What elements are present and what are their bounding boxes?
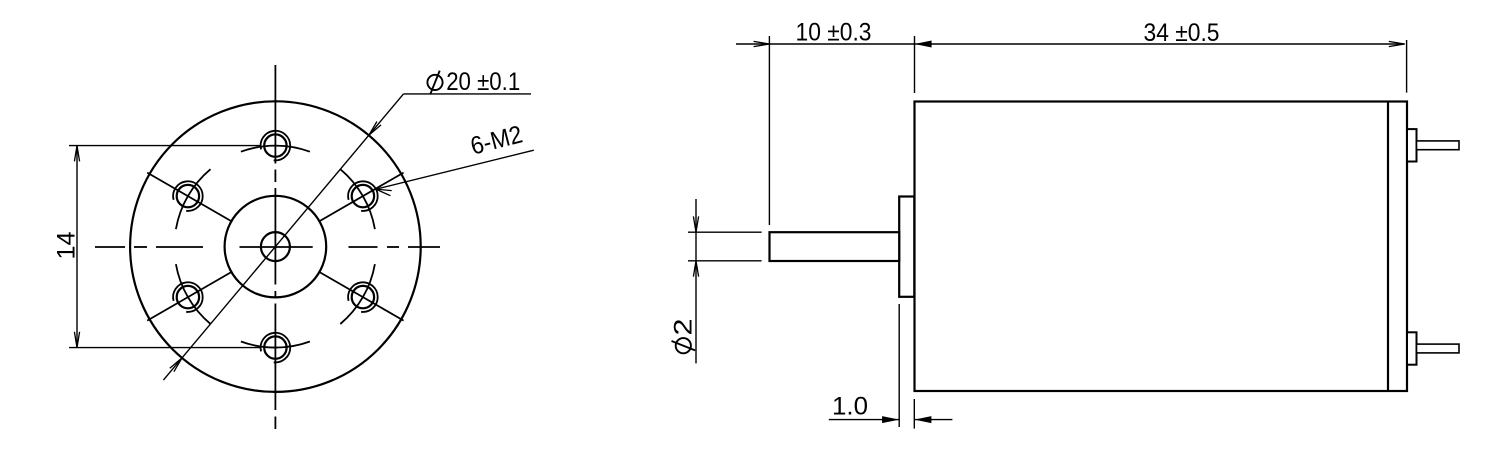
bolt-circle arc at 30° hole (340, 169, 375, 229)
dim text 14 (52, 231, 80, 259)
ext line shaft bottom (688, 260, 762, 262)
outer flange circle ∅20 (130, 101, 421, 392)
extension line body front (914, 36, 916, 93)
mounting hole M2 at 270° (261, 333, 291, 363)
dim ∅20 lower arrow (170, 358, 182, 372)
leader line 6-M2 (376, 150, 534, 189)
dim 10 left arrow (754, 41, 770, 46)
dim ∅20 diagonal dimension line (163, 94, 403, 380)
top dimension line (736, 43, 1405, 45)
mounting hole M2 at 330° (348, 282, 378, 312)
mounting hole M2 at 90° (261, 131, 291, 161)
dim 14 bottom arrow (74, 332, 79, 348)
mounting hole M2 at 150° (173, 181, 203, 211)
dim 10/34 shared arrow (915, 41, 932, 48)
dim 14 top extension line (69, 145, 260, 147)
motor shaft (770, 232, 900, 261)
svg-text:10 ±0.3: 10 ±0.3 (796, 18, 872, 46)
terminal at y=145.3 (1407, 129, 1459, 161)
dim text ∅2 (670, 319, 698, 354)
end cap line (1387, 102, 1389, 392)
dim ∅2 top arrow (693, 216, 698, 232)
horizontal centerline (95, 246, 440, 248)
dim ∅2 bottom arrow (693, 261, 698, 277)
radial spoke 30° (319, 173, 404, 222)
terminal at y=348.5 (1407, 332, 1459, 364)
motor body outline (915, 102, 1408, 392)
bolt-circle arc at 270° hole (241, 342, 310, 348)
label text 6-M2 (468, 120, 526, 160)
∅ symbol for ∅20 (427, 71, 442, 95)
bolt-circle arc at 210° hole (176, 264, 211, 324)
radial spoke 150° (147, 173, 232, 222)
dim ∅2 dimension line (695, 199, 697, 363)
dim 1.0 right arrow (914, 416, 931, 423)
center boss circle (225, 196, 327, 298)
dim ∅20 upper arrow (369, 122, 381, 136)
dim 1.0 line right (914, 419, 952, 421)
ext line shaft top (688, 231, 762, 233)
ext line body front lower (913, 399, 915, 429)
svg-text:20 ±0.1: 20 ±0.1 (446, 68, 520, 96)
bolt-circle arc at 90° hole (241, 146, 310, 152)
radial spoke 210° (147, 272, 232, 321)
dim 34 right arrow (1389, 41, 1405, 46)
dim 1.0 line left (829, 419, 899, 421)
extension line body rear (1406, 40, 1408, 93)
bearing boss (899, 197, 914, 297)
svg-text:2: 2 (670, 319, 698, 336)
dim 14 bottom extension line (69, 347, 260, 349)
mounting hole M2 at 210° (173, 282, 203, 312)
ext line boss left (898, 304, 900, 427)
dim 1.0 left arrow (882, 416, 899, 423)
svg-text:34 ±0.5: 34 ±0.5 (1144, 19, 1220, 47)
dim ∅20 text underline (404, 93, 532, 95)
bolt-circle arc at 150° hole (176, 169, 211, 229)
leader arrow 6-M2 (376, 189, 392, 196)
extension line shaft tip (768, 36, 770, 225)
dim 14 top arrow (74, 146, 79, 162)
svg-text:14: 14 (52, 231, 80, 259)
vertical centerline (274, 65, 276, 429)
svg-text:1.0: 1.0 (832, 393, 868, 421)
mounting hole M2 at 30° (348, 181, 378, 211)
dim 14 dimension line (76, 146, 78, 348)
radial spoke 330° (319, 272, 404, 321)
bolt-circle arc at 330° hole (340, 264, 375, 324)
shaft circle ∅2 (261, 232, 290, 261)
